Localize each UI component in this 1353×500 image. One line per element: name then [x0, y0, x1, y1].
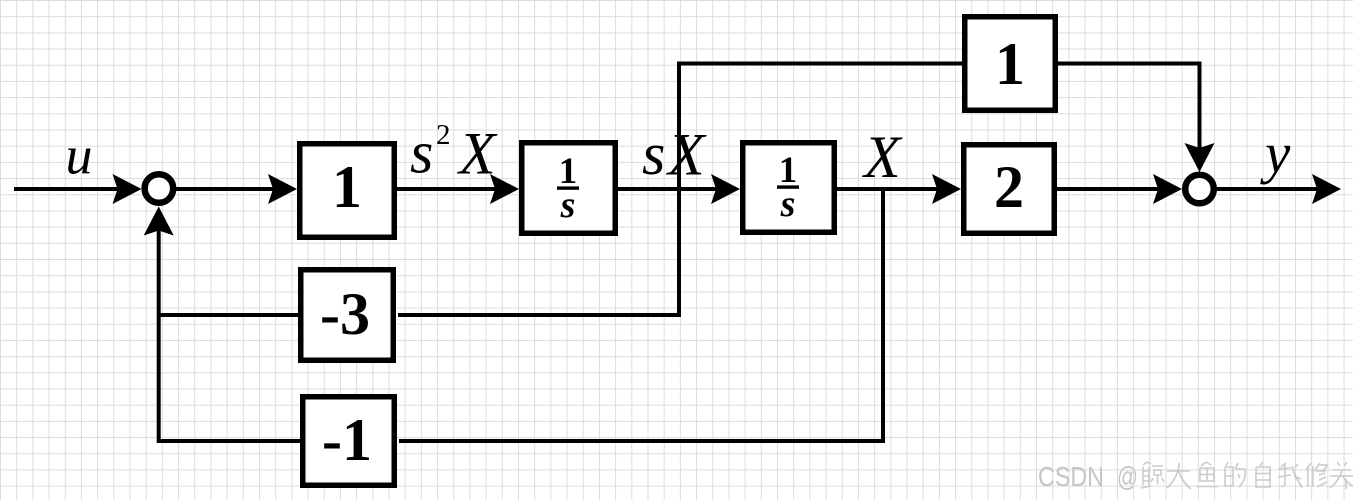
- svg-text:-3: -3: [320, 281, 370, 347]
- wire input u: [14, 187, 120, 191]
- block I1 integrator 1/s: [522, 143, 616, 234]
- arrowhead into I1: [490, 174, 519, 204]
- watermark CSDN: [1038, 461, 1138, 492]
- watermark hanzi wo (me): [1278, 463, 1302, 488]
- arrowhead into S2 left: [1153, 174, 1182, 204]
- wire G1 to I1: [395, 187, 497, 191]
- watermark hanzi xiu (cultivate): [1306, 463, 1327, 487]
- svg-text:s: s: [642, 121, 665, 187]
- svg-text:2: 2: [994, 154, 1024, 220]
- wire S2 to output y: [1215, 187, 1319, 191]
- watermark hanzi da (big): [1167, 463, 1191, 489]
- label sX: [642, 121, 707, 188]
- svg-text:@: @: [1117, 461, 1138, 492]
- svg-text:s: s: [780, 183, 796, 225]
- watermark hanzi yu (fish): [1196, 462, 1218, 487]
- svg-text:s: s: [560, 184, 576, 226]
- summing junction S1: [145, 174, 174, 203]
- watermark hanzi jing (whale): [1141, 462, 1164, 488]
- wire G2 to S2: [1055, 187, 1160, 191]
- wire node X down and left to G5: [399, 189, 883, 441]
- svg-text:u: u: [66, 126, 93, 186]
- summing junction S2: [1185, 175, 1214, 204]
- wire G4 to left feedback rail: [159, 313, 300, 317]
- svg-text:1: 1: [332, 154, 362, 220]
- svg-text:2: 2: [436, 119, 451, 151]
- block G2 gain 2: [964, 145, 1055, 234]
- label s^2 X: [410, 119, 498, 187]
- svg-text:X: X: [862, 124, 903, 190]
- watermark hanzi zi (self): [1256, 462, 1270, 487]
- svg-text:CSDN: CSDN: [1038, 461, 1104, 492]
- arrowhead into G1: [268, 174, 297, 204]
- svg-text:y: y: [1260, 123, 1291, 186]
- block G4 gain -3: [301, 270, 394, 361]
- wire node sX up and right to G3: [679, 64, 962, 190]
- block I2 integrator 1/s: [743, 143, 835, 233]
- wire node sX down and left to G4: [398, 189, 679, 315]
- wire I1 to I2: [616, 187, 718, 191]
- arrowhead into S2 top: [1185, 143, 1215, 172]
- wire G3 right and down to S2: [1056, 64, 1200, 151]
- svg-text:X: X: [666, 122, 707, 188]
- arrowhead into S1: [113, 174, 142, 204]
- svg-text:-1: -1: [322, 407, 372, 473]
- block G3 gain 1 feedforward: [965, 17, 1056, 111]
- block G5 gain -1: [303, 397, 395, 486]
- svg-text:s: s: [410, 120, 433, 186]
- svg-text:1: 1: [995, 31, 1025, 97]
- arrowhead into S1 bottom: [144, 207, 174, 236]
- arrowhead into I2: [711, 174, 740, 204]
- wire G5 left and up to S1: [159, 228, 302, 441]
- block G1 gain 1: [300, 144, 395, 238]
- watermark hanzi de (of): [1225, 462, 1245, 487]
- svg-text:X: X: [457, 121, 498, 187]
- watermark hanzi yang (nurture): [1330, 462, 1353, 489]
- arrowhead output y: [1312, 174, 1341, 204]
- arrowhead into G2: [932, 174, 961, 204]
- wire I2 to G2: [835, 187, 939, 191]
- wire S1 to G1: [174, 187, 275, 191]
